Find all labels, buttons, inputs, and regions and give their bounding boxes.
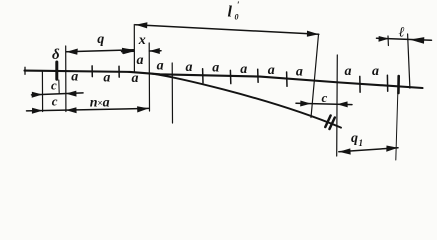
svg-text:q: q	[97, 32, 104, 47]
e extension line	[408, 34, 410, 88]
svg-text:a: a	[137, 53, 144, 68]
e arrow left small	[379, 36, 390, 42]
l0 arrow right	[307, 31, 319, 37]
tick t1	[91, 66, 93, 77]
svg-text:a: a	[157, 58, 164, 73]
extension line D	[148, 43, 150, 111]
extension line C	[133, 25, 135, 72]
l0 arrow left	[136, 22, 148, 28]
right rail joint bar	[397, 76, 400, 93]
q arrow right	[122, 48, 134, 54]
c right arrow left	[300, 101, 311, 107]
turnout curve	[150, 73, 341, 127]
left rail joint bar	[55, 62, 58, 79]
svg-text:c: c	[51, 77, 57, 92]
x dimension right tail	[149, 50, 161, 52]
joint bar extension	[58, 80, 60, 94]
svg-text:a: a	[212, 61, 219, 76]
tick t7	[359, 76, 361, 92]
tick t8	[386, 75, 388, 91]
tick t6	[286, 72, 288, 86]
q1 arrow left	[339, 148, 351, 154]
c row2 arrow left	[32, 108, 43, 114]
c right dimension line	[296, 103, 352, 104]
svg-text:a: a	[240, 62, 247, 77]
svg-text:a: a	[71, 69, 78, 84]
q1 dimension line	[339, 148, 398, 152]
svg-text:ℓ: ℓ	[399, 26, 405, 41]
svg-text:l: l	[228, 3, 233, 20]
svg-text:a: a	[296, 65, 303, 80]
c right arrow right	[337, 101, 348, 107]
q1 arrow right	[386, 146, 398, 152]
tick t5	[257, 69, 259, 82]
svg-text:c: c	[52, 94, 58, 109]
c row2 / n*a dimension line	[27, 108, 149, 111]
x arrow left	[123, 48, 134, 54]
l0 dimension line	[136, 25, 319, 35]
extension line V2	[336, 55, 339, 156]
c row1 arrow left	[32, 92, 43, 98]
n*a arrow left	[66, 107, 77, 113]
break mark stroke 1	[325, 116, 330, 128]
break mark stroke 2	[330, 118, 335, 130]
extension line E	[171, 63, 173, 123]
svg-text:a: a	[132, 71, 139, 86]
x arrow right	[149, 48, 160, 54]
e dimension line	[377, 38, 432, 40]
svg-text:a: a	[372, 64, 379, 79]
extension line B	[65, 46, 67, 112]
svg-text:0: 0	[235, 13, 239, 22]
q arrow left	[66, 49, 78, 55]
n*a arrow right	[137, 106, 149, 112]
x dimension left tail	[122, 50, 134, 52]
c row1 dimension line	[32, 93, 84, 95]
q dimension line	[66, 50, 133, 52]
start tick	[24, 67, 26, 74]
svg-text:a: a	[345, 64, 352, 79]
svg-text:q: q	[351, 131, 358, 146]
extension line V1	[311, 35, 319, 118]
svg-text:x: x	[138, 33, 146, 48]
tick t4	[229, 70, 231, 83]
svg-text:δ: δ	[52, 47, 60, 63]
svg-text:a: a	[186, 60, 193, 75]
extension line A	[41, 71, 43, 112]
main track line	[25, 71, 423, 88]
c row1 arrow right	[66, 91, 77, 97]
tick t2	[118, 66, 120, 77]
svg-text:a: a	[268, 63, 275, 78]
svg-text:1: 1	[359, 138, 364, 148]
svg-text:c: c	[322, 90, 328, 105]
e arrow right	[410, 37, 425, 44]
tick t3	[202, 69, 204, 83]
svg-text:a: a	[103, 71, 110, 86]
e extension stub	[387, 36, 389, 46]
svg-text:a: a	[103, 96, 110, 111]
right joint extension	[396, 93, 398, 160]
svg-text:′: ′	[237, 0, 240, 10]
